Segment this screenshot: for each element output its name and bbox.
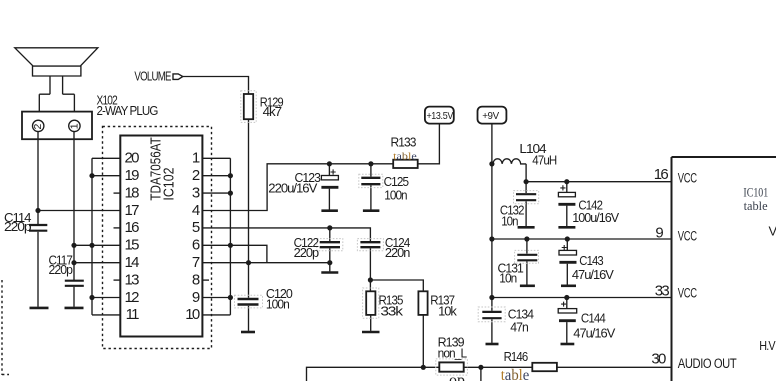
wire pin7 to C122 bottom — [202, 262, 329, 264]
power symbol +9V box — [478, 107, 507, 124]
highlight halo C120 — [235, 295, 263, 308]
wire audio out rail left corner down — [307, 367, 440, 381]
wire bus to pin19 — [92, 175, 120, 177]
C142 plus sign — [560, 185, 565, 190]
capacitor C117 plates — [65, 281, 84, 286]
capacitor C114 plates — [29, 225, 47, 231]
capacitor C132 top stem — [525, 182, 527, 193]
svg-text:15: 15 — [125, 237, 140, 254]
wire C134 to ground — [491, 319, 493, 343]
wire plug pin1 down to junction row15 — [73, 132, 75, 281]
wire plug pin2 down to C114 — [37, 132, 39, 226]
svg-text:1: 1 — [68, 123, 80, 129]
svg-text:30: 30 — [651, 350, 666, 367]
wire pin1 to right bus — [202, 157, 230, 159]
junction C131 top rail9 — [524, 236, 529, 241]
capacitor C142 electrolytic positive plate — [558, 192, 575, 196]
junction C122 top — [327, 225, 332, 230]
wire R139 to R146 — [464, 366, 533, 368]
IC U101 box edges — [672, 157, 776, 381]
wire L104 to VCC16 rail — [526, 164, 671, 182]
svg-text:2-WAY PLUG: 2-WAY PLUG — [97, 103, 159, 118]
resistor R139 body — [439, 362, 463, 371]
svg-text:VCC: VCC — [678, 229, 697, 244]
nc stub pin18 — [114, 192, 121, 194]
wire pin17 from left wire to IC102 — [38, 210, 120, 212]
svg-text:19: 19 — [125, 167, 140, 184]
C143 plus sign — [562, 245, 567, 250]
wire bus to pin11 — [92, 314, 120, 316]
svg-text:IC102: IC102 — [161, 168, 178, 201]
svg-text:10k: 10k — [438, 304, 457, 319]
wire VCC9 rail — [492, 238, 672, 240]
wire pin15 from right wire to IC102 — [74, 244, 120, 246]
junction right wire pin14 — [71, 260, 76, 265]
highlight halo C131 — [515, 250, 539, 263]
ground bar C144 — [561, 343, 575, 346]
junction left wire pin17 — [35, 208, 40, 213]
wire bus to pin20 — [92, 157, 120, 159]
highlight halo R139 — [436, 359, 468, 375]
svg-text:47u/16V: 47u/16V — [572, 267, 614, 282]
svg-text:10: 10 — [185, 306, 200, 323]
junction left bus pin15 — [89, 243, 94, 248]
svg-text:33: 33 — [655, 283, 670, 300]
svg-text:V: V — [769, 223, 776, 238]
capacitor C131 plates — [517, 255, 537, 260]
capacitor C123 top stem — [328, 164, 330, 176]
svg-text:100n: 100n — [266, 297, 290, 312]
svg-text:100n: 100n — [384, 188, 407, 203]
wire C122 bottom through pin7 net to ground — [329, 248, 331, 271]
wire VCC33 rail — [492, 297, 672, 299]
svg-text:+9V: +9V — [482, 110, 499, 122]
svg-text:4k7: 4k7 — [263, 104, 282, 119]
highlight halo R129 — [241, 91, 256, 123]
named node VOLUME input flag — [173, 74, 183, 80]
wire VOLUME to R129 — [183, 77, 249, 95]
junction +9V L104 — [489, 161, 494, 166]
junction C132 top rail16 — [524, 179, 529, 184]
wire C125 to ground — [370, 185, 372, 209]
svg-text:C144: C144 — [581, 311, 606, 326]
connector X102 2-WAY PLUG box — [22, 112, 92, 140]
junction +9V rail9 — [489, 236, 494, 241]
junction C142 top rail16 — [564, 179, 569, 184]
svg-text:220p: 220p — [49, 262, 73, 277]
svg-text:C143: C143 — [579, 253, 603, 268]
wire pin2 to right bus — [202, 175, 230, 177]
wire C117 to ground — [73, 287, 75, 307]
wire pin6 jog down to pin7 net — [202, 245, 267, 262]
svg-text:33k: 33k — [380, 304, 403, 319]
svg-text:16: 16 — [654, 166, 669, 183]
capacitor C143 electrolytic positive plate — [559, 250, 577, 255]
capacitor C144 negative plate — [559, 319, 576, 322]
svg-text:220u/16V: 220u/16V — [268, 181, 317, 196]
svg-text:R146: R146 — [504, 349, 528, 364]
svg-text:R133: R133 — [391, 134, 417, 149]
right bus wire tying pins 1,2,3,6,9,10 — [229, 158, 231, 315]
svg-text:18: 18 — [125, 184, 140, 201]
wire pin14 from right wire to IC102 — [74, 262, 120, 264]
junction +9V rail33 — [489, 295, 494, 300]
svg-text:220n: 220n — [385, 245, 410, 260]
capacitor C131 top stem — [526, 239, 528, 254]
wire pin4 L-shape up to 13.5V rail — [202, 164, 393, 211]
svg-text:47uH: 47uH — [532, 152, 557, 167]
junction right bus pin6 — [228, 243, 233, 248]
plug contact pin 2 circle — [33, 120, 44, 131]
highlight halo C122 — [317, 239, 343, 251]
svg-text:220p: 220p — [4, 219, 31, 234]
capacitor C123 electrolytic positive plate — [321, 176, 338, 180]
svg-text:100u/16V: 100u/16V — [572, 210, 619, 225]
C123 plus sign — [331, 169, 336, 174]
capacitor C134 plates — [482, 312, 501, 318]
wire C132 to ground — [525, 201, 527, 226]
junction right wire pin15 — [71, 243, 76, 248]
svg-text:20: 20 — [125, 150, 140, 167]
wire C143 to ground — [566, 264, 568, 285]
svg-text:table: table — [393, 150, 417, 162]
dashed module box around IC102 — [103, 127, 212, 349]
nc stub pin8 — [202, 279, 209, 281]
capacitor C143 top stem — [566, 239, 568, 250]
highlight halo C125 — [359, 174, 383, 187]
junction right bus pin3 — [228, 191, 233, 196]
junction right bus pin2 — [228, 173, 233, 178]
wire pin10 to right bus — [202, 314, 230, 316]
ground bar R135 — [362, 331, 380, 334]
wire pin9 to right bus — [202, 297, 230, 299]
wire R146 to IC101 pin30 — [557, 366, 672, 368]
svg-text:12: 12 — [125, 289, 140, 306]
svg-text:op: op — [449, 372, 465, 381]
junction R129 wire pin7 — [246, 260, 251, 265]
wire C144 to ground — [566, 322, 568, 343]
svg-text:VOLUME: VOLUME — [134, 69, 171, 84]
highlight halo R135 — [363, 288, 379, 318]
wire node to R137 — [370, 280, 423, 291]
junction left bus pin19 — [89, 173, 94, 178]
nc stub pin16 — [114, 227, 121, 229]
ground bar C132 — [518, 226, 535, 229]
capacitor C125 plates — [361, 178, 380, 184]
highlight halo C124 — [357, 239, 383, 251]
C144 plus sign — [561, 302, 566, 307]
svg-text:220p: 220p — [294, 245, 319, 260]
svg-text:13: 13 — [125, 271, 140, 288]
power symbol +13.5V box — [425, 107, 454, 124]
wire C123 to ground — [328, 189, 330, 210]
svg-text:AUDIO OUT: AUDIO OUT — [678, 356, 737, 371]
dashed box fragment bottom left — [2, 280, 9, 375]
op-amp IC102 body box — [120, 136, 202, 337]
junction C144 top rail33 — [564, 295, 569, 300]
wire C120 to ground — [248, 306, 250, 331]
left bus wire tying pins 20,19,15,12,11 — [91, 158, 93, 315]
svg-text:2: 2 — [32, 124, 44, 130]
nc stub pin13 — [114, 279, 121, 281]
inductor L104 coil — [493, 159, 526, 164]
plug contact pin 1 circle — [69, 120, 80, 131]
svg-text:10n: 10n — [501, 214, 518, 229]
wire C125 top stem — [370, 164, 372, 177]
wire pin3 to right bus — [202, 192, 230, 194]
svg-text:11: 11 — [126, 306, 140, 323]
capacitor C143 negative plate — [559, 261, 576, 264]
wire R129 down through pin7 net to C120 — [248, 119, 250, 298]
junction left bus pin12 — [89, 295, 94, 300]
svg-text:table: table — [501, 367, 530, 381]
ground bar C122 — [321, 271, 338, 274]
wire R135 to ground — [370, 315, 372, 331]
capacitor C124 plates — [360, 242, 380, 247]
junction R137 audio rail — [421, 365, 426, 370]
wire C131 to ground — [526, 261, 528, 284]
speaker LS symbol — [15, 48, 98, 112]
capacitor C132 plates — [516, 194, 536, 200]
wire R133 to 13.5V — [418, 124, 440, 164]
resistor R135 body — [366, 291, 375, 315]
junction C143 top rail9 — [565, 236, 570, 241]
ground bar C117 — [65, 307, 84, 310]
capacitor C144 electrolytic positive plate — [558, 309, 577, 313]
wire stub down from audio rail — [480, 367, 482, 381]
svg-text:16: 16 — [125, 219, 140, 236]
wire C142 to ground — [566, 206, 568, 227]
resistor R146 body — [532, 363, 557, 371]
svg-text:47n: 47n — [510, 320, 528, 335]
resistor R129 body — [244, 94, 253, 119]
resistor R137 body — [418, 291, 427, 315]
wire bus to pin12 — [92, 297, 120, 299]
svg-text:non_L: non_L — [438, 346, 467, 361]
wire C124 bottom to R135/R137 node — [369, 248, 371, 291]
capacitor C122 plates — [320, 242, 340, 247]
svg-text:H.V: H.V — [759, 338, 776, 353]
junction C123 top — [327, 161, 332, 166]
capacitor C123 negative plate — [321, 186, 338, 189]
svg-text:10n: 10n — [499, 271, 517, 286]
ground bar C131 — [520, 284, 535, 287]
ground bar C134 — [486, 343, 499, 346]
svg-text:17: 17 — [125, 202, 140, 219]
ground bar C143 — [561, 284, 576, 287]
wire pin5 rail to C124 — [202, 228, 370, 241]
resistor R133 body — [393, 160, 418, 168]
junction C122 bottom pin7 net — [327, 260, 332, 265]
svg-text:14: 14 — [125, 254, 140, 271]
ground bar C123 — [321, 209, 338, 212]
junction R135/R137 node — [368, 277, 373, 282]
svg-text:VCC: VCC — [678, 285, 697, 300]
wire +9V down rail — [491, 124, 493, 311]
highlight halo C132 — [514, 191, 539, 204]
junction right bus pin9 — [228, 295, 233, 300]
wire R137 down to audio rail — [422, 315, 424, 367]
capacitor C142 negative plate — [558, 203, 575, 206]
capacitor C142 top stem — [566, 182, 568, 193]
capacitor C122 top stem — [329, 228, 331, 241]
ground bar C142 — [558, 226, 575, 229]
ground bar C120 — [241, 331, 255, 334]
svg-text:table: table — [744, 198, 768, 213]
capacitor C144 top stem — [566, 298, 568, 309]
capacitor C120 plates — [238, 299, 259, 305]
svg-text:VCC: VCC — [678, 171, 697, 186]
junction C125 top — [368, 161, 373, 166]
svg-text:+13.5V: +13.5V — [426, 110, 453, 122]
svg-text:47u/16V: 47u/16V — [573, 326, 615, 341]
wire C114 to ground — [37, 232, 39, 307]
highlight halo C134 — [478, 307, 505, 322]
junction audio rail stub — [478, 365, 483, 370]
ground bar C114 — [30, 307, 49, 310]
ground bar C125 — [363, 209, 380, 212]
